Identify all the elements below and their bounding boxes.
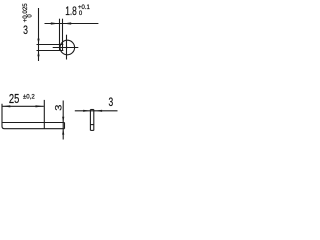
- svg-text:+0.025: +0.025: [22, 3, 29, 23]
- svg-text:3: 3: [109, 97, 114, 110]
- svg-text:±0,2: ±0,2: [23, 93, 35, 100]
- arrowhead: left arrow of 25 dim: [2, 105, 10, 107]
- center dot of pin circle: [66, 47, 67, 48]
- svg-text:1.8: 1.8: [65, 6, 77, 19]
- wire: dimension line for 3+0.025 (top view): [38, 8, 40, 61]
- part bottom edge (side view): [5, 128, 65, 130]
- arrowhead: up arrow of 3 dim (side view): [62, 129, 64, 135]
- wire: dimension line for 3 (end view): [75, 110, 118, 112]
- wire: dimension line for 3 (side view): [62, 101, 64, 140]
- tab left edge (top view): [59, 19, 61, 51]
- arrowhead: left-pointing arrow of 1.8 dim: [63, 22, 71, 24]
- tab cross-section bottom edge (end view): [90, 129, 93, 131]
- tab cross-section left edge (end view): [89, 110, 91, 131]
- arm bottom edge (top view): [37, 50, 64, 52]
- tab cross-section internal line (end view): [90, 124, 93, 126]
- tab right edge (top view): [62, 19, 64, 51]
- arm top edge (top view): [37, 44, 64, 46]
- svg-text:25: 25: [9, 92, 19, 106]
- tab cross-section right edge (end view): [93, 110, 95, 131]
- circle: pin outline (top view): [60, 40, 75, 55]
- arrowhead: down arrow of 3 dim (side view): [62, 117, 64, 123]
- arrowhead: right-pointing arrow of 1.8 dim: [51, 22, 59, 24]
- tab cross-section top edge (end view): [90, 109, 93, 111]
- part top edge (side view): [2, 122, 65, 124]
- horizontal centerline of hole (top view): [53, 47, 79, 49]
- svg-text:3: 3: [23, 25, 28, 38]
- arrowhead: up arrow of 3+0.025 dim: [37, 51, 39, 57]
- fold edge / right extension line of 25 dim (side view): [43, 100, 45, 129]
- wire: dimension line for 1.8 (top view): [45, 23, 99, 25]
- arrowhead: left-pointing arrow of 3 dim (end view): [95, 110, 102, 112]
- vertical centerline of hole (top view): [66, 35, 68, 60]
- arrowhead: right arrow of 25 dim: [36, 105, 44, 107]
- arrowhead: right-pointing arrow of 3 dim (end view): [83, 110, 90, 112]
- arrowhead: down arrow of 3+0.025 dim: [37, 39, 39, 45]
- left extension line + part left edge with fillet (side view): [2, 104, 5, 129]
- wire: dimension line for 25 (side view): [2, 105, 44, 107]
- svg-text:3: 3: [54, 104, 64, 111]
- part right edge (side view): [64, 123, 66, 129]
